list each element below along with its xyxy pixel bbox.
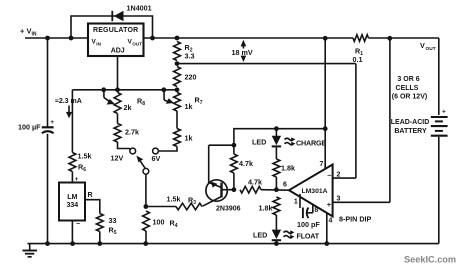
- wire pin3 up to battery sense: [389, 38, 391, 202]
- svg-text:−: −: [76, 221, 80, 228]
- wire pin2 stub: [333, 177, 356, 179]
- wire pin7 vertical: [324, 38, 326, 169]
- svg-text:1N4001: 1N4001: [127, 4, 152, 13]
- node junction dot 220/R7 junction: [175, 87, 180, 92]
- svg-text:(6 OR 12V): (6 OR 12V): [392, 93, 427, 100]
- wire 1k to 6V contact: [159, 147, 178, 152]
- resistor R3 zigzag: [176, 203, 202, 210]
- pot R7 wiper arrow: [164, 90, 174, 104]
- node junction dot float top: [274, 187, 279, 192]
- node junction dot C1 bottom: [45, 241, 50, 246]
- label 18 mV: [232, 48, 253, 57]
- label 1.5k R3: [167, 195, 197, 207]
- label LEAD-ACID BATTERY: [391, 119, 430, 135]
- wire pin6 stub: [261, 189, 290, 192]
- node junction dot C1 top: [45, 36, 50, 41]
- resistor 1.8k lower zigzag: [273, 197, 280, 215]
- svg-text:1k: 1k: [185, 134, 193, 143]
- label 3.3: [185, 52, 195, 61]
- label R8: [137, 97, 145, 108]
- svg-text:100: 100: [153, 218, 165, 227]
- wire C1 bottom: [47, 134, 49, 244]
- svg-text:1.5k: 1.5k: [167, 195, 181, 204]
- label 1.5k R6: [78, 152, 92, 174]
- label 33 R5: [109, 216, 117, 236]
- diode D1 1N4001 symbol: [112, 11, 123, 21]
- svg-text:OUT: OUT: [132, 41, 142, 46]
- resistor R6 zigzag: [69, 153, 76, 172]
- svg-text:1k: 1k: [185, 102, 193, 111]
- wire top rail right (regulator Vout to R1): [144, 37, 354, 39]
- node junction dot LM334 bottom: [70, 241, 75, 246]
- op-amp pin1 and comp cap: [294, 194, 319, 218]
- label pin 7: [320, 161, 324, 168]
- label V_OUT terminal: [420, 41, 436, 52]
- wire R3 left: [146, 206, 176, 208]
- annotation 18 mV double arrow: [241, 40, 247, 62]
- svg-text:+ V: + V: [20, 27, 31, 36]
- label 100 pF: [297, 220, 320, 229]
- wire top rail left (+Vin to regulator): [25, 37, 88, 39]
- wire diode branch up-over: [71, 16, 153, 38]
- svg-text:+: +: [442, 109, 446, 116]
- label plus input: [327, 200, 332, 209]
- svg-text:1.8k: 1.8k: [259, 204, 273, 213]
- label 1k lower: [185, 134, 193, 143]
- svg-text:1.8k: 1.8k: [281, 164, 295, 173]
- svg-text:LM301A: LM301A: [301, 188, 327, 195]
- node junction dot base node: [232, 187, 237, 192]
- wire Q1 base to node: [222, 189, 234, 191]
- node junction dot LED charge top: [274, 126, 279, 131]
- label 100 R4: [153, 218, 178, 230]
- label +V_IN: [20, 27, 37, 38]
- node junction dot diode branch right: [150, 36, 155, 41]
- annotation charge light arrows: [285, 137, 296, 145]
- svg-text:IN: IN: [32, 32, 37, 38]
- resistor 1.8k upper zigzag: [273, 159, 280, 177]
- label 2.7k: [125, 128, 139, 137]
- wire switch common down: [145, 174, 147, 206]
- label Vout pin: [128, 39, 143, 47]
- label 4.7k vertical: [239, 159, 253, 168]
- label 6V: [152, 154, 161, 163]
- node junction dot emitter/4.7k: [232, 143, 237, 148]
- potentiometer R8 zigzag: [114, 93, 121, 114]
- svg-text:7: 7: [320, 161, 324, 168]
- svg-text:18 mV: 18 mV: [232, 48, 253, 57]
- switch common contact: [143, 168, 149, 174]
- svg-text:220: 220: [185, 73, 197, 82]
- label battery plus: [442, 109, 446, 116]
- wire C1 top: [47, 38, 49, 127]
- label 2N3906: [216, 206, 241, 213]
- label LED charge: [252, 138, 266, 147]
- svg-text:4.7k: 4.7k: [239, 159, 253, 168]
- svg-text:+: +: [50, 119, 54, 126]
- pot R8 wiper arrow: [104, 90, 115, 105]
- label 1N4001: [127, 4, 152, 13]
- svg-text:LM: LM: [67, 194, 77, 201]
- LED D3 float: [272, 215, 281, 244]
- label LM301A: [301, 188, 327, 195]
- svg-text:≈2.3 mA: ≈2.3 mA: [55, 98, 82, 105]
- resistor 220 zigzag: [174, 67, 181, 87]
- svg-text:+: +: [327, 200, 332, 209]
- label ADJ pin: [111, 47, 125, 54]
- label 3 OR 6 CELLS: [392, 76, 427, 100]
- svg-text:8: 8: [314, 207, 318, 214]
- svg-text:100 µF: 100 µF: [18, 123, 41, 132]
- svg-text:BATTERY: BATTERY: [394, 128, 427, 135]
- svg-text:4.7k: 4.7k: [248, 178, 262, 187]
- label 220: [185, 73, 197, 82]
- svg-text:334: 334: [66, 202, 78, 209]
- svg-text:SeekIC.com: SeekIC.com: [404, 255, 456, 265]
- node junction dot R5 bottom: [97, 241, 102, 246]
- ground symbol: [23, 244, 38, 257]
- node junction dot R4 bottom: [143, 241, 148, 246]
- svg-text:–: –: [327, 171, 331, 180]
- svg-text:FLOAT: FLOAT: [297, 232, 320, 241]
- node junction dot ADJ R8 top: [115, 87, 120, 92]
- resistor 2.7k zigzag: [114, 124, 121, 143]
- transistor Q1 2N3906: [203, 180, 228, 206]
- switch contact 6V: [153, 148, 159, 154]
- label REGULATOR: [93, 27, 139, 34]
- label pin 3: [337, 195, 341, 202]
- wire second rail (R2 bottom to pin2 drop): [177, 63, 356, 65]
- label 8-PIN DIP: [339, 215, 372, 224]
- wire emitter horizontal: [209, 144, 234, 146]
- op-amp U3 LM334 box: [59, 183, 85, 221]
- label R pin: [88, 192, 93, 199]
- svg-text:CHARGE: CHARGE: [296, 138, 326, 147]
- label minus input: [327, 171, 331, 180]
- resistor R5 33 zigzag: [96, 214, 103, 232]
- svg-text:2k: 2k: [124, 103, 132, 112]
- svg-text:V: V: [420, 41, 425, 50]
- svg-text:REGULATOR: REGULATOR: [93, 27, 139, 34]
- label 2k: [124, 103, 132, 112]
- svg-text:OUT: OUT: [426, 46, 436, 52]
- wire LM334 bottom: [71, 221, 73, 244]
- svg-text:33: 33: [109, 216, 117, 225]
- wire Rs bottom: [99, 232, 101, 244]
- svg-text:LED: LED: [253, 231, 267, 240]
- label minus below LM334: [76, 221, 80, 228]
- wire R8 to 2.7k: [117, 114, 119, 124]
- wire R pin to Rs: [85, 200, 100, 214]
- label CHARGE: [296, 138, 326, 147]
- node junction dot R7 wiper: [161, 87, 166, 92]
- label 4.7k horizontal: [248, 178, 262, 187]
- LED D2 charge: [272, 129, 281, 159]
- wire R7 to 1k: [176, 111, 178, 129]
- wire pin2 to second rail: [355, 64, 357, 179]
- label 1.8k upper: [281, 164, 295, 173]
- label LED float: [253, 231, 267, 240]
- node junction dot R8 wiper: [101, 87, 106, 92]
- label 1k upper: [185, 102, 193, 111]
- potentiometer R7 zigzag: [174, 93, 181, 112]
- annotation float light arrows: [284, 230, 295, 238]
- svg-text:IN: IN: [96, 41, 101, 46]
- label 1.8k lower: [259, 204, 273, 213]
- svg-text:12V: 12V: [111, 154, 124, 163]
- node junction dot battery sense: [387, 36, 392, 41]
- capacitor C1 100uF: [42, 119, 54, 133]
- label 0.1: [353, 55, 363, 64]
- node junction dot pin4 bottom: [324, 241, 329, 246]
- resistor 4.7k vertical zigzag: [231, 145, 238, 190]
- wire ADJ horizontal line: [72, 89, 177, 91]
- node junction dot R2 top: [175, 36, 180, 41]
- wire 1.8k to base line: [275, 177, 277, 190]
- resistor R4 zigzag: [143, 211, 150, 231]
- wire R6 to LM334: [71, 172, 73, 183]
- label 100 uF: [18, 123, 41, 132]
- svg-text:8-PIN DIP: 8-PIN DIP: [339, 215, 372, 224]
- svg-text:6: 6: [283, 182, 287, 189]
- svg-text:4: 4: [329, 218, 333, 225]
- svg-text:LED: LED: [252, 138, 266, 147]
- svg-text:3: 3: [337, 195, 341, 202]
- label 12V: [111, 154, 124, 163]
- wire ADJ pin vertical: [117, 56, 119, 90]
- label R1: [355, 47, 363, 58]
- resistor 1k lower zigzag: [174, 129, 181, 147]
- wire 4.7k top corner: [234, 129, 325, 146]
- svg-text:6V: 6V: [152, 154, 161, 163]
- wire 2.7k to 12V contact: [118, 142, 131, 150]
- wire top rail to Vout corner: [369, 37, 439, 39]
- node junction dot pin7 branch: [323, 36, 328, 41]
- svg-text:100 pF: 100 pF: [297, 220, 320, 229]
- svg-text:2.7k: 2.7k: [125, 128, 139, 137]
- svg-text:0.1: 0.1: [353, 55, 363, 64]
- label FLOAT: [297, 232, 320, 241]
- svg-text:3 OR 6: 3 OR 6: [397, 76, 419, 83]
- svg-text:3.3: 3.3: [185, 52, 195, 61]
- wire R4 bottom: [145, 231, 147, 243]
- wire battery bottom: [438, 137, 440, 244]
- label Vin pin: [92, 39, 102, 47]
- svg-text:2: 2: [337, 171, 341, 178]
- label R7: [195, 96, 203, 107]
- svg-text:1: 1: [294, 199, 298, 206]
- wire pin4 down: [326, 213, 328, 244]
- op-amp U1 LM301A triangle: [289, 165, 333, 217]
- switch contact 12V: [130, 148, 136, 154]
- wire bottom rail: [28, 243, 439, 245]
- label pin 2: [337, 171, 341, 178]
- wire Q1 emitter up: [208, 145, 210, 183]
- node junction dot R2 bottom: [175, 61, 180, 66]
- label R2: [185, 43, 193, 54]
- node junction dot diode branch left: [69, 36, 74, 41]
- watermark SeekIC.com: [404, 255, 456, 265]
- regulator U2 box: [88, 24, 144, 57]
- svg-text:1.5k: 1.5k: [78, 152, 92, 161]
- resistor R2 zigzag: [174, 42, 181, 61]
- annotation 2.3mA arrow: [55, 98, 82, 118]
- svg-text:CELLS: CELLS: [396, 85, 419, 92]
- label + above LM334: [75, 176, 79, 183]
- svg-text:2N3906: 2N3906: [216, 206, 241, 213]
- label pin 4: [329, 218, 333, 225]
- node junction dot pin7 line: [323, 126, 328, 131]
- svg-text:ADJ: ADJ: [111, 47, 125, 54]
- wire pin3 stub: [333, 201, 390, 203]
- node junction dot switch/R3/R4: [144, 204, 149, 209]
- label pin 6: [283, 182, 287, 189]
- resistor R1 zigzag: [353, 35, 369, 42]
- svg-text:R: R: [88, 192, 93, 199]
- wire ADJ-line corner down to R6: [71, 90, 73, 153]
- resistor 4.7k horizontal zigzag: [240, 186, 261, 193]
- wire battery top: [438, 38, 440, 115]
- label LM 334: [66, 194, 78, 209]
- svg-text:LEAD-ACID: LEAD-ACID: [391, 119, 430, 126]
- switch pole S1 arrow: [136, 156, 145, 169]
- battery B1 symbol: [431, 117, 448, 136]
- node junction dot float LED bottom: [274, 241, 279, 246]
